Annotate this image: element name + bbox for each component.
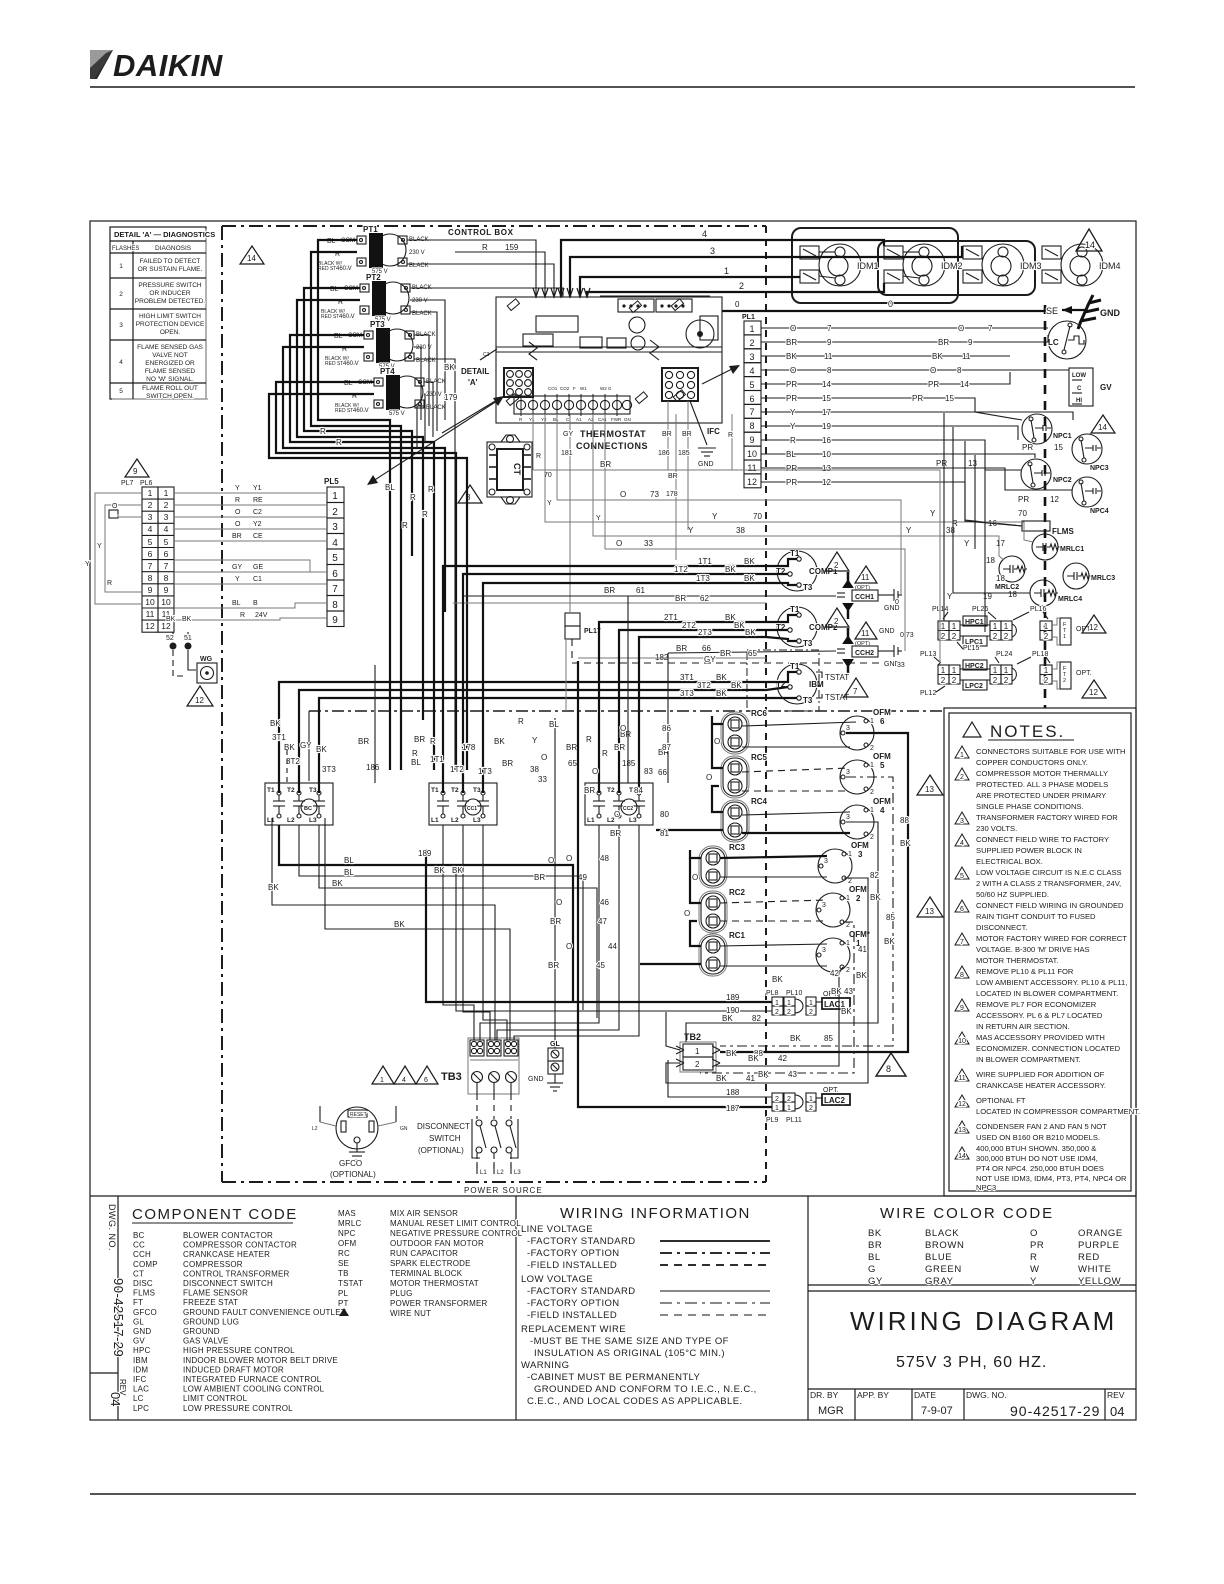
svg-text:17: 17 [996,539,1005,548]
svg-text:PL8: PL8 [766,990,779,997]
svg-text:43: 43 [788,1070,797,1079]
svg-text:GND: GND [528,1076,544,1083]
svg-text:SUPPLIED POWER BLOCK IN: SUPPLIED POWER BLOCK IN [976,846,1082,855]
manual reset limit control MRLC1 [1032,534,1084,560]
outdoor fan motor OFM5 [840,752,891,796]
svg-text:15: 15 [1054,443,1063,452]
svg-text:CONNECTORS SUITABLE FOR USE WI: CONNECTORS SUITABLE FOR USE WITH [976,747,1126,756]
svg-text:1: 1 [787,1000,791,1007]
PL18 single connector [1040,665,1052,684]
svg-text:179: 179 [444,393,458,402]
svg-text:1: 1 [870,807,874,814]
svg-text:COMPONENT CODE: COMPONENT CODE [132,1206,298,1223]
svg-text:FLMS: FLMS [1052,527,1074,536]
svg-text:INTEGRATED FURNACE CONTROL: INTEGRATED FURNACE CONTROL [183,1375,322,1384]
svg-text:PR: PR [786,394,797,403]
svg-text:NPC2: NPC2 [1053,477,1072,484]
svg-text:14: 14 [1085,240,1095,250]
wire BR-81 [610,829,850,838]
svg-text:BK: BK [932,352,943,361]
svg-text:13: 13 [925,907,934,916]
svg-text:GE: GE [253,564,263,571]
manual reset limit control MRLC3 [1063,563,1115,589]
svg-text:ELECTRICAL BOX.: ELECTRICAL BOX. [976,857,1043,866]
svg-text:OPEN.: OPEN. [160,329,180,336]
svg-text:DWG. NO.: DWG. NO. [107,1204,117,1251]
svg-text:GL: GL [133,1317,144,1326]
wire bundle: PL1 column risers [938,413,1030,665]
svg-text:BC: BC [133,1231,145,1240]
svg-text:DISCONNECT.: DISCONNECT. [976,923,1027,932]
svg-text:51: 51 [184,635,192,642]
svg-text:INDUCED DRAFT MOTOR: INDUCED DRAFT MOTOR [183,1365,284,1374]
svg-text:IFC: IFC [133,1375,147,1384]
svg-text:66: 66 [702,644,711,653]
BL / R input labels [327,238,357,400]
svg-text:2: 2 [739,281,744,291]
run capacitor RC4 [721,797,768,842]
svg-text:2: 2 [941,676,946,685]
svg-text:USED ON B160 OR B210 MODELS.: USED ON B160 OR B210 MODELS. [976,1133,1100,1142]
svg-text:80: 80 [660,810,669,819]
svg-text:CT: CT [512,463,522,475]
svg-text:FLAME SENSED: FLAME SENSED [145,368,196,375]
svg-text:2: 2 [846,967,850,974]
svg-text:2: 2 [809,1105,813,1112]
svg-text:14: 14 [822,380,831,389]
svg-text:1: 1 [787,1105,791,1112]
transformer PT3 [325,320,436,370]
svg-text:DISC: DISC [133,1279,153,1288]
wire BR-62 [453,594,766,603]
note triangles 1 4 6 [372,1066,438,1084]
svg-text:3: 3 [846,814,850,821]
note triangle 8 [876,1053,906,1076]
svg-text:COMPRESSOR CONTACTOR: COMPRESSOR CONTACTOR [183,1241,297,1250]
svg-text:12: 12 [822,478,831,487]
svg-text:400,000 BTUH SHOWN. 350,000 &: 400,000 BTUH SHOWN. 350,000 & [976,1144,1096,1153]
svg-text:62: 62 [700,594,709,603]
svg-text:5: 5 [148,537,153,547]
svg-text:12: 12 [1089,688,1098,697]
svg-text:460 V: 460 V [353,408,369,414]
svg-text:HI: HI [1076,398,1082,404]
svg-text:6: 6 [749,394,754,404]
svg-text:41: 41 [858,945,867,954]
svg-text:4: 4 [148,524,153,534]
svg-text:13: 13 [968,459,977,468]
svg-text:OUTDOOR FAN MOTOR: OUTDOOR FAN MOTOR [390,1239,484,1248]
svg-text:575 V: 575 V [389,411,405,417]
svg-text:2: 2 [164,500,169,510]
svg-text:18: 18 [1008,590,1017,599]
svg-text:FAILED TO DETECT: FAILED TO DETECT [140,258,201,265]
svg-text:C: C [1077,386,1082,392]
svg-text:8: 8 [886,1064,891,1074]
svg-text:CRANKCASE HEATER: CRANKCASE HEATER [183,1250,270,1259]
svg-text:Y: Y [906,526,912,535]
svg-text:15: 15 [822,394,831,403]
svg-text:2: 2 [941,632,946,641]
svg-text:BK: BK [722,1014,733,1023]
svg-text:CO1: CO1 [548,386,558,391]
transformer PT1 [318,225,429,275]
svg-text:REMOVE PL10 & PL11 FOR: REMOVE PL10 & PL11 FOR [976,967,1074,976]
svg-text:GROUND: GROUND [183,1327,220,1336]
note triangle 12 [1082,615,1106,633]
svg-text:GY: GY [563,431,573,438]
COMP1 feed wires from CC1 [443,557,766,793]
svg-text:2: 2 [749,338,754,348]
heavy dashed divider right [1044,305,1047,708]
svg-text:OR SUSTAIN FLAME.: OR SUSTAIN FLAME. [138,266,203,273]
svg-text:WIRING DIAGRAM: WIRING DIAGRAM [850,1306,1117,1336]
svg-text:42: 42 [778,1054,787,1063]
svg-text:BL: BL [549,720,559,729]
svg-text:Y: Y [947,592,953,601]
svg-text:38: 38 [530,765,539,774]
svg-text:O: O [620,490,626,499]
wire bundle: PT secondary outputs into board [407,240,563,770]
svg-text:8: 8 [827,366,832,375]
wire O-46 dashed [556,898,827,907]
svg-text:DR. BY: DR. BY [810,1390,839,1400]
thermostat terminal strip [514,386,632,422]
svg-text:CCH: CCH [133,1250,151,1259]
outdoor fan motor OFM3 [818,841,869,885]
svg-text:90-42517-29: 90-42517-29 [1010,1403,1100,1419]
svg-text:86: 86 [662,724,671,733]
row 2: PL13 connector [938,665,960,684]
svg-text:BR: BR [682,431,692,438]
svg-text:2: 2 [870,745,874,752]
svg-text:41: 41 [746,1074,755,1083]
svg-text:IDM3: IDM3 [1020,261,1042,271]
wire Y-38 to MRLC2 [593,526,1004,560]
svg-text:BLOWER CONTACTOR: BLOWER CONTACTOR [183,1231,273,1240]
svg-text:L1: L1 [431,817,439,824]
svg-text:BK: BK [772,975,783,984]
transformer PT2 [321,273,432,323]
wire BR-47 dashed [550,917,827,926]
IBM dash-dot enclosure [747,650,819,711]
HPC2 label box [963,660,987,670]
svg-text:LOCATED IN BLOWER COMPARTMENT.: LOCATED IN BLOWER COMPARTMENT. [976,989,1118,998]
svg-text:178: 178 [462,743,476,752]
svg-text:CONNECTIONS: CONNECTIONS [576,441,648,451]
IDM enclosure box B [878,241,1035,295]
svg-text:11: 11 [861,629,870,638]
svg-text:83: 83 [644,767,653,776]
svg-text:186: 186 [658,450,670,457]
svg-text:ENERGIZED OR: ENERGIZED OR [145,360,195,367]
svg-text:CO2: CO2 [560,386,570,391]
svg-text:PR: PR [1018,495,1029,504]
svg-text:IDM: IDM [133,1365,148,1374]
svg-text:VALVE NOT: VALVE NOT [152,352,188,359]
svg-text:PL1: PL1 [742,314,755,321]
board entry flares [533,288,590,297]
svg-text:2: 2 [119,291,123,298]
svg-text:24V: 24V [255,612,268,619]
PL16 single connector [1040,621,1052,640]
svg-text:230 VOLTS.: 230 VOLTS. [976,824,1017,833]
svg-text:NPC1: NPC1 [1053,433,1072,440]
svg-text:GY: GY [704,655,716,664]
svg-text:BR: BR [548,961,559,970]
svg-text:SWITCH OPEN.: SWITCH OPEN. [146,393,194,400]
svg-text:DISCONNECT: DISCONNECT [417,1122,470,1131]
svg-text:SE: SE [1046,306,1058,316]
svg-text:2: 2 [1044,632,1049,641]
svg-text:BL: BL [411,758,421,767]
wire O-86 [620,722,856,733]
svg-text:1T1: 1T1 [430,755,444,764]
svg-text:C1: C1 [253,576,262,583]
svg-text:'A': 'A' [468,378,478,387]
svg-text:DAIKIN: DAIKIN [113,48,223,83]
svg-text:10: 10 [161,597,171,607]
svg-text:A1: A1 [576,417,582,422]
svg-text:Y: Y [235,485,240,492]
svg-text:2: 2 [846,922,850,929]
ground at board [690,401,716,456]
svg-text:B: B [253,600,258,607]
note triangle 14 above IDM4 [1076,229,1102,251]
svg-text:Y: Y [790,408,796,417]
svg-text:GV: GV [133,1337,145,1346]
svg-text:T2: T2 [607,787,615,794]
induced draft motor IDM1 [800,244,879,286]
svg-text:4: 4 [332,538,338,549]
induced draft motor IDM4 [1042,244,1121,286]
board outline [496,297,722,423]
svg-text:PL5: PL5 [324,477,339,486]
svg-text:BR: BR [550,917,561,926]
note triangle 2 (comp2) [825,608,849,627]
svg-text:R: R [402,521,408,530]
svg-text:L2: L2 [451,817,459,824]
svg-text:O: O [592,767,598,776]
crankcase heater CCH2 [837,628,902,675]
svg-text:BROWN: BROWN [925,1240,964,1251]
svg-text:WARNING: WARNING [521,1360,569,1371]
svg-text:-CABINET MUST BE PERMANENTLY: -CABINET MUST BE PERMANENTLY [527,1372,701,1383]
wire bundle: under-board risers to COMP zone [566,495,688,711]
svg-text:2: 2 [1063,678,1066,684]
svg-text:FREEZE STAT: FREEZE STAT [183,1298,238,1307]
PL6 to PL5 wires [174,485,327,620]
svg-text:1: 1 [164,488,169,498]
svg-text:RC3: RC3 [729,843,746,852]
svg-text:BL: BL [344,868,354,877]
induced draft motor IDM3 [963,244,1042,286]
arrow to PL1 [702,366,738,384]
svg-text:14: 14 [958,1153,966,1160]
svg-text:REV: REV [1107,1390,1125,1400]
svg-text:WIRE NUT: WIRE NUT [390,1309,431,1318]
wire 1 [580,277,800,297]
wire 0 bus [722,310,1045,312]
svg-text:CONNECT FIELD WIRING IN GROUND: CONNECT FIELD WIRING IN GROUNDED [976,901,1124,910]
svg-text:1T3: 1T3 [478,767,492,776]
svg-text:R: R [336,438,342,447]
run capacitor RC6 [721,709,768,754]
svg-text:SE: SE [338,1259,349,1268]
svg-text:12: 12 [1050,495,1059,504]
svg-text:5: 5 [880,761,885,770]
svg-text:HPC: HPC [133,1346,151,1355]
compressor COMP2 [766,605,838,648]
svg-text:W: W [1030,1264,1040,1275]
svg-text:1: 1 [332,491,338,502]
svg-text:3T3: 3T3 [322,765,336,774]
svg-text:2: 2 [1004,676,1009,685]
svg-text:43: 43 [844,987,853,996]
relay blocks [536,316,578,332]
svg-text:2: 2 [834,617,839,626]
svg-text:61: 61 [636,586,645,595]
DETAIL A DIAGNOSTICS table [110,227,215,400]
svg-text:1T2: 1T2 [674,565,688,574]
svg-text:Y: Y [688,526,694,535]
svg-text:BK: BK [870,893,881,902]
svg-text:18: 18 [996,574,1005,583]
wire labels under board [561,431,733,522]
svg-text:O: O [1030,1228,1038,1239]
svg-text:PL10: PL10 [786,990,802,997]
molex P1 [662,368,698,401]
svg-text:8: 8 [749,421,754,431]
top connector strips [618,299,654,312]
wire color labels near PL1 [786,324,833,487]
note triangle 9 above PL7 [125,459,149,477]
svg-text:1: 1 [870,762,874,769]
svg-text:33: 33 [897,662,905,669]
svg-text:BK: BK [444,363,455,372]
svg-text:L3: L3 [473,817,481,824]
svg-text:Y1: Y1 [253,485,262,492]
wire bundle: TB2 connections [578,661,772,1107]
svg-text:C2: C2 [253,509,262,516]
svg-text:L1: L1 [267,817,275,824]
svg-text:9: 9 [148,585,153,595]
svg-text:BK: BK [831,987,842,996]
negative pressure control NPC4 [1072,477,1109,515]
flame sensor FLMS [1022,521,1074,536]
svg-text:88: 88 [900,816,909,825]
svg-text:WHITE: WHITE [1078,1264,1112,1275]
svg-text:LC: LC [133,1394,144,1403]
svg-text:NPC4: NPC4 [1090,508,1109,515]
svg-text:GN: GN [624,417,631,422]
svg-text:12: 12 [958,1101,966,1108]
svg-text:Y2: Y2 [253,521,262,528]
svg-text:BK: BK [394,920,405,929]
svg-text:11: 11 [962,352,971,361]
svg-text:RE: RE [253,497,263,504]
svg-text:T3: T3 [803,583,813,592]
wire BR-66 / BR-65 to CCH2 [566,644,836,768]
svg-text:4: 4 [402,1077,406,1084]
Daikin logo mark [90,48,223,83]
svg-text:PT4 OR NPC4. 250,000 BTUH DOES: PT4 OR NPC4. 250,000 BTUH DOES [976,1164,1104,1173]
note triangle 3 [458,485,482,503]
svg-text:O: O [235,509,241,516]
svg-text:BR: BR [610,829,621,838]
ground lug GL [528,718,563,1091]
svg-text:187: 187 [726,1104,740,1113]
svg-text:W2: W2 [600,386,607,391]
svg-text:T1: T1 [431,787,439,794]
svg-text:BLACK: BLACK [925,1228,959,1239]
svg-text:L2: L2 [287,817,295,824]
svg-text:PL7: PL7 [121,480,134,487]
svg-text:7: 7 [164,561,169,571]
outer border [90,221,1136,1420]
svg-text:Y: Y [596,515,601,522]
svg-text:BK: BK [716,689,727,698]
svg-text:2: 2 [848,878,852,885]
svg-text:COMP: COMP [133,1260,158,1269]
svg-text:BR: BR [566,743,577,752]
svg-text:PURPLE: PURPLE [1078,1240,1120,1251]
svg-text:11: 11 [747,463,756,473]
svg-text:1: 1 [148,488,153,498]
svg-text:NOTES.: NOTES. [990,722,1065,741]
svg-text:SPARK ELECTRODE: SPARK ELECTRODE [390,1259,471,1268]
compressor contactor CC1 [429,783,497,825]
LPC1 label box [963,636,987,646]
svg-text:6: 6 [424,1077,428,1084]
svg-text:5: 5 [960,873,964,880]
svg-text:L1: L1 [587,817,595,824]
svg-text:87: 87 [662,743,671,752]
svg-text:1: 1 [1063,634,1066,640]
svg-text:14: 14 [960,380,969,389]
svg-text:11: 11 [824,352,833,361]
svg-text:7: 7 [988,324,993,333]
svg-text:0: 0 [888,299,893,309]
svg-text:CT: CT [133,1269,144,1278]
svg-text:BK: BK [900,839,911,848]
wire O-80 [614,810,850,819]
negative pressure control NPC1 [1022,414,1072,444]
svg-text:85: 85 [886,913,895,922]
svg-text:2: 2 [960,774,964,781]
svg-text:BC: BC [304,806,312,812]
PL7/PL6 left loop wires [85,493,142,604]
svg-text:NPC3: NPC3 [1090,465,1109,472]
svg-text:RAIN TIGHT CONDUIT TO FUSED: RAIN TIGHT CONDUIT TO FUSED [976,912,1096,921]
svg-text:0: 0 [735,300,740,309]
wire 190 to PL8 [434,866,772,1015]
svg-text:1: 1 [846,940,850,947]
WIRING INFORMATION panel [521,1205,770,1407]
svg-text:FLAME SENSOR: FLAME SENSOR [183,1289,248,1298]
svg-text:CE: CE [253,533,263,540]
svg-text:LIMIT CONTROL: LIMIT CONTROL [183,1394,248,1403]
svg-text:OFM: OFM [849,885,867,894]
svg-text:2: 2 [775,1096,779,1103]
svg-text:R: R [422,510,428,519]
svg-text:WG: WG [200,656,213,663]
svg-text:VOLTAGE. B-300 'M' DRIVE HAS: VOLTAGE. B-300 'M' DRIVE HAS [976,945,1090,954]
svg-text:12: 12 [145,621,155,631]
svg-text:O: O [790,366,796,375]
svg-text:1: 1 [380,1077,384,1084]
svg-text:NEGATIVE PRESSURE CONTROL: NEGATIVE PRESSURE CONTROL [390,1229,523,1238]
